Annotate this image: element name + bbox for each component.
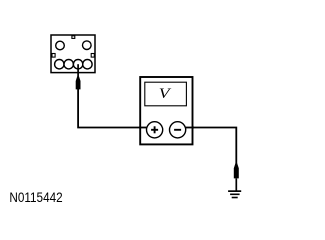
connector pin 4 (bottom row cavity 2) — [64, 59, 73, 68]
probe lead into pin 5 — [77, 64, 79, 77]
ground test plug — [234, 163, 239, 178]
connector pin 6 (bottom row cavity 4) — [83, 59, 92, 68]
wire stub from - terminal through meter right edge — [181, 127, 194, 129]
wire from voltmeter - terminal right then down to ground plug — [180, 128, 236, 166]
connector C1 body — [51, 35, 95, 73]
connector right side notch — [91, 54, 94, 58]
test probe plug at connector — [76, 76, 81, 89]
ground symbol bar 1 — [228, 190, 241, 192]
+ sign — [151, 129, 158, 131]
connector left side notch — [52, 54, 55, 58]
connector pin 5 (bottom row cavity 3, probed) — [73, 59, 82, 68]
voltmeter V1 body — [140, 77, 192, 144]
voltmeter display window — [145, 82, 187, 106]
- sign — [174, 129, 181, 131]
ground symbol bar 2 — [230, 194, 240, 196]
voltmeter - terminal — [170, 122, 186, 138]
voltmeter + terminal — [147, 122, 163, 138]
ground symbol bar 3 — [232, 197, 238, 199]
wire from connector probe down and right to voltmeter + terminal — [78, 88, 150, 128]
connector pin 3 (bottom row cavity 1) — [55, 59, 64, 68]
wire stub through meter left edge to + terminal — [139, 127, 150, 129]
ground lead — [235, 178, 237, 190]
connector pin 1 (top-left cavity) — [56, 41, 65, 50]
connector top keying notch — [72, 36, 75, 39]
connector pin 2 (top-right cavity) — [83, 41, 92, 50]
svg-text:N0115442: N0115442 — [9, 189, 62, 205]
